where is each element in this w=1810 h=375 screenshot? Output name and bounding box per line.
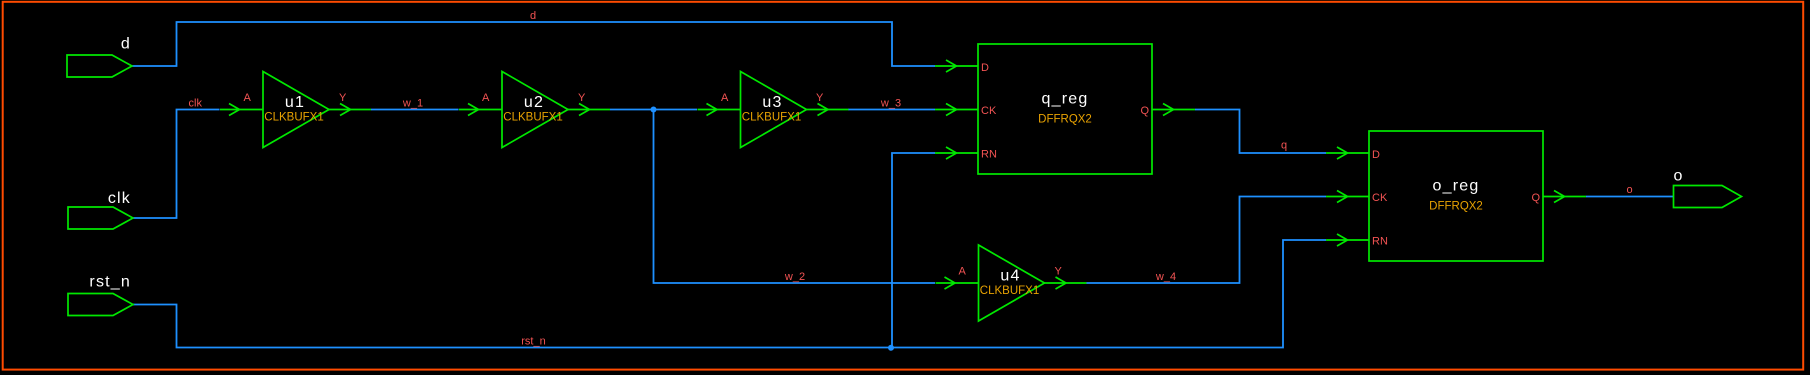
svg-text:q_reg: q_reg <box>1042 91 1089 108</box>
svg-text:RN: RN <box>1372 236 1388 248</box>
svg-text:d: d <box>530 10 536 22</box>
svg-text:rst_n: rst_n <box>521 336 545 348</box>
svg-text:A: A <box>721 92 729 104</box>
svg-text:D: D <box>981 62 989 74</box>
svg-text:CLKBUFX1: CLKBUFX1 <box>742 112 801 124</box>
svg-text:o: o <box>1674 168 1684 185</box>
svg-text:Y: Y <box>339 92 347 104</box>
svg-text:u4: u4 <box>1000 268 1020 285</box>
svg-text:Q: Q <box>1531 192 1540 204</box>
svg-text:CK: CK <box>1372 192 1388 204</box>
svg-text:q: q <box>1281 140 1287 152</box>
svg-text:A: A <box>244 92 252 104</box>
svg-text:clk: clk <box>108 190 131 207</box>
svg-text:Y: Y <box>816 92 824 104</box>
svg-text:u3: u3 <box>762 94 782 111</box>
svg-text:DFFRQX2: DFFRQX2 <box>1429 201 1483 213</box>
svg-text:w_2: w_2 <box>784 271 805 283</box>
svg-text:D: D <box>1372 149 1380 161</box>
svg-text:clk: clk <box>189 98 203 110</box>
svg-text:o: o <box>1627 184 1633 196</box>
svg-text:Y: Y <box>578 92 586 104</box>
svg-text:CLKBUFX1: CLKBUFX1 <box>503 112 562 124</box>
svg-text:CLKBUFX1: CLKBUFX1 <box>980 285 1039 297</box>
svg-text:RN: RN <box>981 149 997 161</box>
svg-text:CLKBUFX1: CLKBUFX1 <box>264 112 323 124</box>
svg-text:DFFRQX2: DFFRQX2 <box>1038 114 1092 126</box>
svg-text:CK: CK <box>981 105 997 117</box>
svg-text:A: A <box>482 92 490 104</box>
svg-text:rst_n: rst_n <box>89 274 131 291</box>
svg-text:A: A <box>959 266 967 278</box>
svg-text:d: d <box>121 36 131 53</box>
svg-text:o_reg: o_reg <box>1433 178 1480 195</box>
svg-text:Y: Y <box>1055 266 1063 278</box>
svg-text:u1: u1 <box>285 94 305 111</box>
svg-text:u2: u2 <box>524 94 544 111</box>
svg-text:Q: Q <box>1140 105 1149 117</box>
svg-text:w_4: w_4 <box>1155 271 1176 283</box>
svg-text:w_1: w_1 <box>402 98 423 110</box>
svg-text:w_3: w_3 <box>880 98 901 110</box>
